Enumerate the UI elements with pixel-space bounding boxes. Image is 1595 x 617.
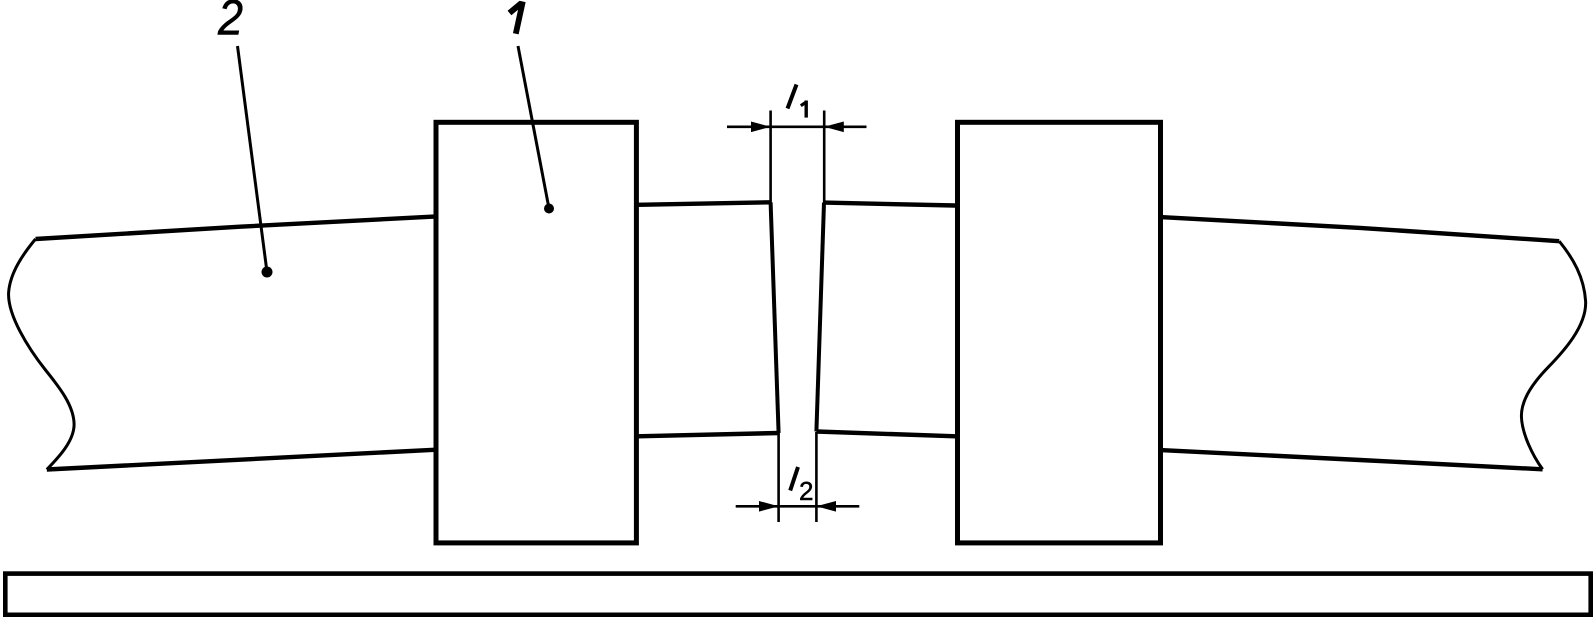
extension line top-right (823, 111, 826, 204)
slab right bottom edge (816, 432, 1542, 470)
arrowhead l2 right (816, 501, 836, 512)
arrowhead l1 left (751, 122, 771, 133)
label l1 subscript 1 stem (805, 101, 808, 118)
extension line bottom-left (777, 432, 780, 522)
slab left piece fill (welded plate, item 2, left of gap) (9, 202, 779, 469)
block 1 (left electrode block) (436, 122, 636, 543)
label 1 stem (516, 2, 523, 34)
extension line top-left (769, 111, 772, 204)
label 1 flag (510, 3, 522, 13)
svg-text:2: 2 (799, 476, 813, 506)
gap right edge (816, 203, 824, 432)
leader dot 1 (544, 204, 554, 214)
arrowhead l2 left (759, 501, 779, 512)
slab left top edge (36, 202, 771, 239)
arrowhead l1 right (824, 122, 844, 133)
leader line 2 (238, 46, 268, 272)
leader dot 2 (262, 267, 273, 278)
dimension line l1 (727, 126, 867, 129)
left break wavy edge (9, 239, 75, 470)
right break wavy edge (1521, 241, 1585, 469)
gap left edge (771, 202, 779, 433)
slab right piece fill (welded plate, right of gap) (816, 203, 1585, 470)
block (right electrode block) (958, 122, 1161, 543)
leader line 1 (518, 46, 549, 209)
slab left bottom edge (47, 433, 779, 470)
label l1 letter l (788, 85, 797, 109)
extension line bottom-right (815, 432, 818, 522)
label l2 letter l (790, 467, 798, 491)
dimension line l2 (736, 505, 860, 508)
slab right top edge (824, 203, 1559, 242)
svg-text:2: 2 (217, 0, 243, 46)
label l1 subscript 1 flag (801, 102, 806, 106)
base plate (5, 574, 1590, 615)
